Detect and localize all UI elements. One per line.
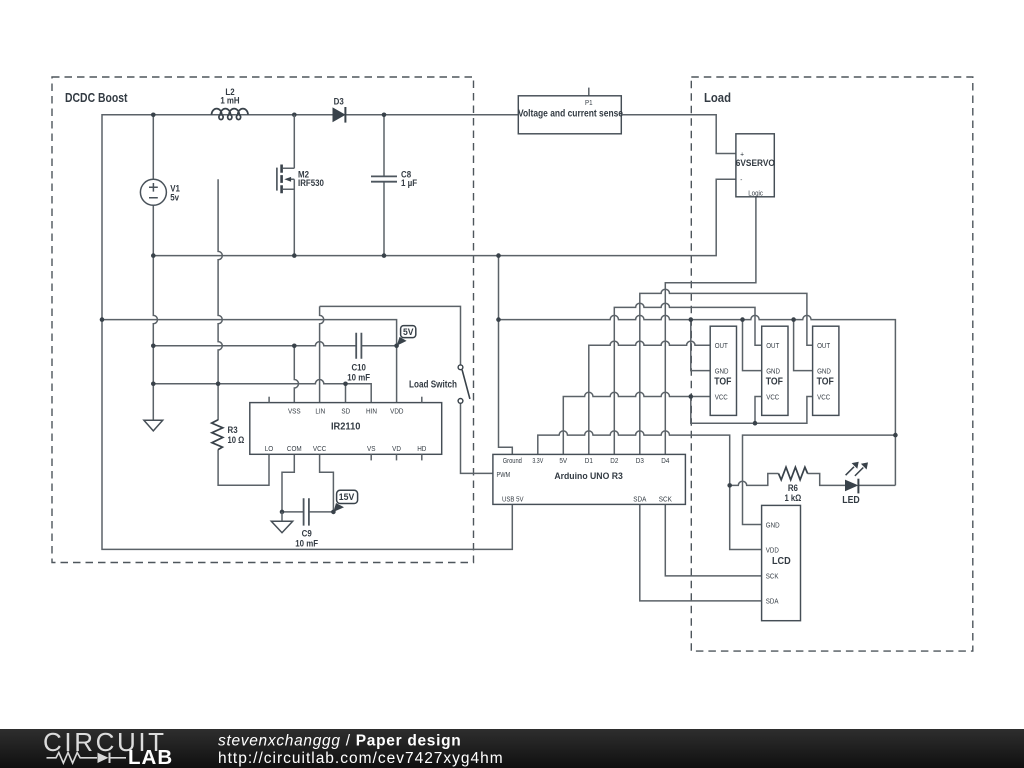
svg-text:Ground: Ground: [503, 456, 522, 465]
wire 5V input branch from rail to VDD node: [102, 320, 397, 346]
svg-text:5v: 5v: [170, 192, 179, 203]
footer title text: [218, 733, 461, 750]
svg-text:D4: D4: [661, 456, 669, 465]
resistor R3: [212, 420, 245, 450]
svg-text:SCK: SCK: [766, 572, 779, 581]
svg-text:GND: GND: [766, 520, 780, 529]
svg-text:LCD: LCD: [772, 556, 791, 567]
wire input rail: top wire, left rail, USB 5V wire to Arduino: [102, 115, 518, 550]
junction C10 wire on ground vertical: [151, 344, 156, 349]
svg-text:LAB: LAB: [128, 746, 173, 768]
junction C8 bottom on ground wire: [382, 253, 387, 258]
svg-text:SDA: SDA: [633, 494, 646, 503]
svg-text:D2: D2: [610, 456, 618, 465]
servo module 6VSERVO: [736, 134, 775, 198]
wire P1 output to servo + pin: [621, 115, 736, 154]
svg-text:OUT: OUT: [817, 341, 831, 350]
junction TOF2 GND on bus: [740, 317, 745, 322]
diode D3: [333, 96, 345, 123]
junction 3.3V supply node: [727, 483, 732, 488]
wire D1 to TOF1 OUT: [589, 341, 710, 454]
footer bar: [0, 729, 1024, 768]
svg-text:GND: GND: [766, 366, 780, 375]
svg-text:SD: SD: [341, 406, 350, 415]
resistor R6: [779, 467, 808, 503]
CircuitLab logo resistor-diode doodle: [47, 753, 127, 764]
junction TOF2 VCC on VCC bus: [753, 421, 758, 426]
CircuitLab logo CIRCUIT text: [43, 727, 167, 757]
svg-text:TOF: TOF: [766, 376, 783, 387]
svg-text:Arduino UNO R3: Arduino UNO R3: [554, 471, 623, 482]
svg-text:VCC: VCC: [766, 392, 779, 401]
svg-text:3.3V: 3.3V: [532, 456, 543, 465]
wire R3 top lead: [217, 384, 219, 420]
DCDC Boost dashed region box: [52, 77, 474, 563]
wire M2 source to ground net: [293, 179, 295, 255]
svg-text:LIN: LIN: [315, 406, 325, 415]
wire TOF2 VCC branch: [755, 397, 762, 424]
wire V1 top to input rail: [152, 115, 154, 180]
svg-text:OUT: OUT: [715, 341, 729, 350]
svg-text:PWM: PWM: [497, 470, 511, 479]
net flag 15V: [333, 490, 357, 512]
wire R3 bottom to LO pin: [218, 450, 269, 486]
svg-text:http://circuitlab.com/cev7427x: http://circuitlab.com/cev7427xyg4hm: [218, 750, 504, 767]
wire SD HIN net from ground rail: [153, 380, 371, 403]
junction M2 source on ground wire: [292, 253, 297, 258]
wire Arduino SCK to LCD SCK: [665, 504, 761, 576]
svg-text:OUT: OUT: [766, 341, 780, 350]
voltage source V1: [140, 179, 180, 205]
LCD module: [762, 505, 801, 620]
svg-text:5V: 5V: [559, 456, 567, 465]
svg-text:TOF: TOF: [817, 376, 834, 387]
svg-text:1 mH: 1 mH: [220, 94, 239, 105]
wire TOF1 GND to bus: [691, 320, 710, 371]
node 15V flag junction: [331, 510, 336, 515]
sensor module TOF 3: [813, 326, 839, 415]
Arduino UNO R3 module: [493, 454, 686, 504]
junction V1+ on input rail: [151, 113, 156, 118]
junction SD/HIN wire on ground vertical: [151, 381, 156, 386]
svg-text:HIN: HIN: [366, 406, 377, 415]
wire TOF VCC bus: [691, 397, 813, 424]
net flag 5V: [397, 326, 416, 346]
wire V1 bottom to ground net: [152, 205, 154, 255]
CircuitLab logo LAB text: [128, 746, 173, 768]
svg-text:1 kΩ: 1 kΩ: [785, 492, 802, 503]
transistor M2 IRF530 NMOS: [277, 115, 324, 194]
wire SD pin up to node: [345, 384, 347, 403]
wire D2 to TOF2 OUT: [614, 303, 761, 454]
wire R6 right lead to LED anode: [808, 474, 846, 486]
svg-text:LO: LO: [265, 444, 274, 453]
junction V1- on ground wire: [151, 253, 156, 258]
junction 5V to TOF1 VCC: [689, 394, 694, 399]
capacitor C8: [371, 168, 417, 187]
svg-text:D1: D1: [585, 456, 593, 465]
svg-text:VCC: VCC: [715, 392, 728, 401]
wire M2 gate to R3 top node: [218, 179, 222, 383]
wire ground net horizontal, up to servo - pin: [153, 179, 736, 255]
junction C8 on top wire: [382, 113, 387, 118]
svg-text:D3: D3: [636, 456, 644, 465]
svg-text:VDD: VDD: [390, 406, 403, 415]
wire D3 to TOF3 OUT: [640, 289, 813, 454]
svg-text:10 mF: 10 mF: [295, 538, 318, 549]
svg-text:Load: Load: [704, 90, 731, 105]
footer url text: [218, 750, 504, 767]
wire TOF2 GND to bus: [743, 320, 762, 371]
wire TOF3 GND to bus: [794, 320, 813, 371]
svg-text:D3: D3: [334, 96, 344, 107]
svg-text:Logic: Logic: [748, 188, 763, 197]
ground symbol at C9: [271, 512, 292, 533]
switch SW1 Load Switch: [409, 365, 470, 403]
wire switch bottom to Arduino PWM: [461, 404, 493, 474]
svg-text:USB 5V: USB 5V: [502, 494, 524, 503]
svg-text:VCC: VCC: [817, 392, 830, 401]
wire TOF ground bus to LED cathode corner: [499, 315, 896, 485]
Load dashed region box: [691, 77, 973, 651]
svg-text:IRF530: IRF530: [298, 177, 324, 188]
wire D4 to servo Logic pin: [665, 197, 756, 455]
svg-text:P1: P1: [585, 98, 593, 107]
probe P1 Voltage and current sense: [518, 96, 623, 134]
svg-text:VS: VS: [367, 444, 376, 453]
svg-text:VCC: VCC: [313, 444, 327, 453]
wire supply node to LCD VDD: [730, 485, 762, 549]
wire ground branch to LCD GND: [743, 435, 896, 524]
svg-text:GND: GND: [817, 366, 831, 375]
svg-text:10 mF: 10 mF: [347, 372, 370, 383]
svg-text:1 µF: 1 µF: [401, 177, 417, 188]
capacitor C10: [347, 333, 370, 383]
svg-text:Voltage and current sense: Voltage and current sense: [518, 108, 623, 119]
wire P1 top stub: [588, 88, 590, 96]
wire C8 bottom branch: [383, 182, 385, 256]
svg-text:SDA: SDA: [766, 597, 779, 606]
capacitor C9: [295, 498, 318, 548]
wire VSS pin to ground mid wire: [294, 346, 298, 403]
junction TOF1 GND on bus: [689, 317, 694, 322]
wire COM pin to C9 ground node: [282, 454, 294, 512]
op-amp U1 IR2110 gate driver IC: [250, 397, 442, 461]
svg-text:VDD: VDD: [766, 545, 779, 554]
junction LCD GND branch on LED ground wire: [893, 433, 898, 438]
svg-text:SCK: SCK: [659, 494, 672, 503]
svg-text:stevenxchanggg / Paper design: stevenxchanggg / Paper design: [218, 733, 461, 750]
wire Arduino SDA to LCD SDA: [640, 504, 762, 601]
wire LIN pin up over to load switch: [320, 306, 324, 402]
junction M2 drain on top wire: [292, 113, 297, 118]
junction SD pin: [343, 381, 348, 386]
ground symbol DCDC left: [144, 420, 163, 431]
junction VSS branch: [292, 344, 297, 349]
wire C8 top branch: [383, 115, 385, 177]
svg-text:LED: LED: [842, 495, 860, 506]
svg-text:DCDC Boost: DCDC Boost: [65, 90, 128, 105]
junction ground bus start: [496, 317, 501, 322]
sensor module TOF 1: [710, 326, 736, 415]
wire Arduino 3.3V to LED/LCD supply node: [538, 431, 730, 486]
svg-text:VSS: VSS: [288, 406, 301, 415]
node 5V flag junction: [394, 344, 399, 349]
svg-text:15V: 15V: [339, 492, 355, 502]
wire supply node to R6 left lead: [730, 474, 779, 486]
svg-text:GND: GND: [715, 366, 729, 375]
sensor module TOF 2: [762, 326, 788, 415]
svg-text:10 Ω: 10 Ω: [228, 434, 245, 445]
svg-text:VD: VD: [392, 444, 401, 453]
junction TOF3 GND on bus: [791, 317, 796, 322]
svg-text:IR2110: IR2110: [331, 421, 361, 432]
LED D-LED: [842, 462, 868, 507]
wire LIN horizontal to switch top: [320, 306, 461, 364]
svg-text:TOF: TOF: [714, 376, 731, 387]
svg-text:6VSERVO: 6VSERVO: [736, 158, 775, 169]
wire C9 right plate to 15V node: [309, 511, 333, 513]
junction gate node and R3: [216, 381, 221, 386]
svg-text:5V: 5V: [403, 327, 414, 337]
junction Arduino ground branch on ground wire: [496, 253, 501, 258]
wire ground to C10 left plate: [153, 342, 356, 346]
junction C9 ground node: [280, 510, 285, 515]
inductor L2: [212, 86, 249, 120]
wire C10 right plate to VDD pin node: [361, 346, 396, 403]
junction 5V branch on input rail: [100, 317, 105, 322]
svg-text:Load Switch: Load Switch: [409, 380, 457, 391]
wire C9 left plate: [282, 511, 304, 513]
wire Arduino 5V to TOF VCC net: [563, 392, 710, 454]
wire LED cathode to ground corner: [858, 484, 895, 486]
svg-text:COM: COM: [287, 444, 302, 453]
wire VCC pin to 15V node: [320, 454, 334, 512]
svg-text:HD: HD: [417, 444, 426, 453]
wire Arduino Ground pin up to ground net: [499, 256, 513, 455]
wire ground vertical V1- to ground symbol: [153, 256, 157, 421]
